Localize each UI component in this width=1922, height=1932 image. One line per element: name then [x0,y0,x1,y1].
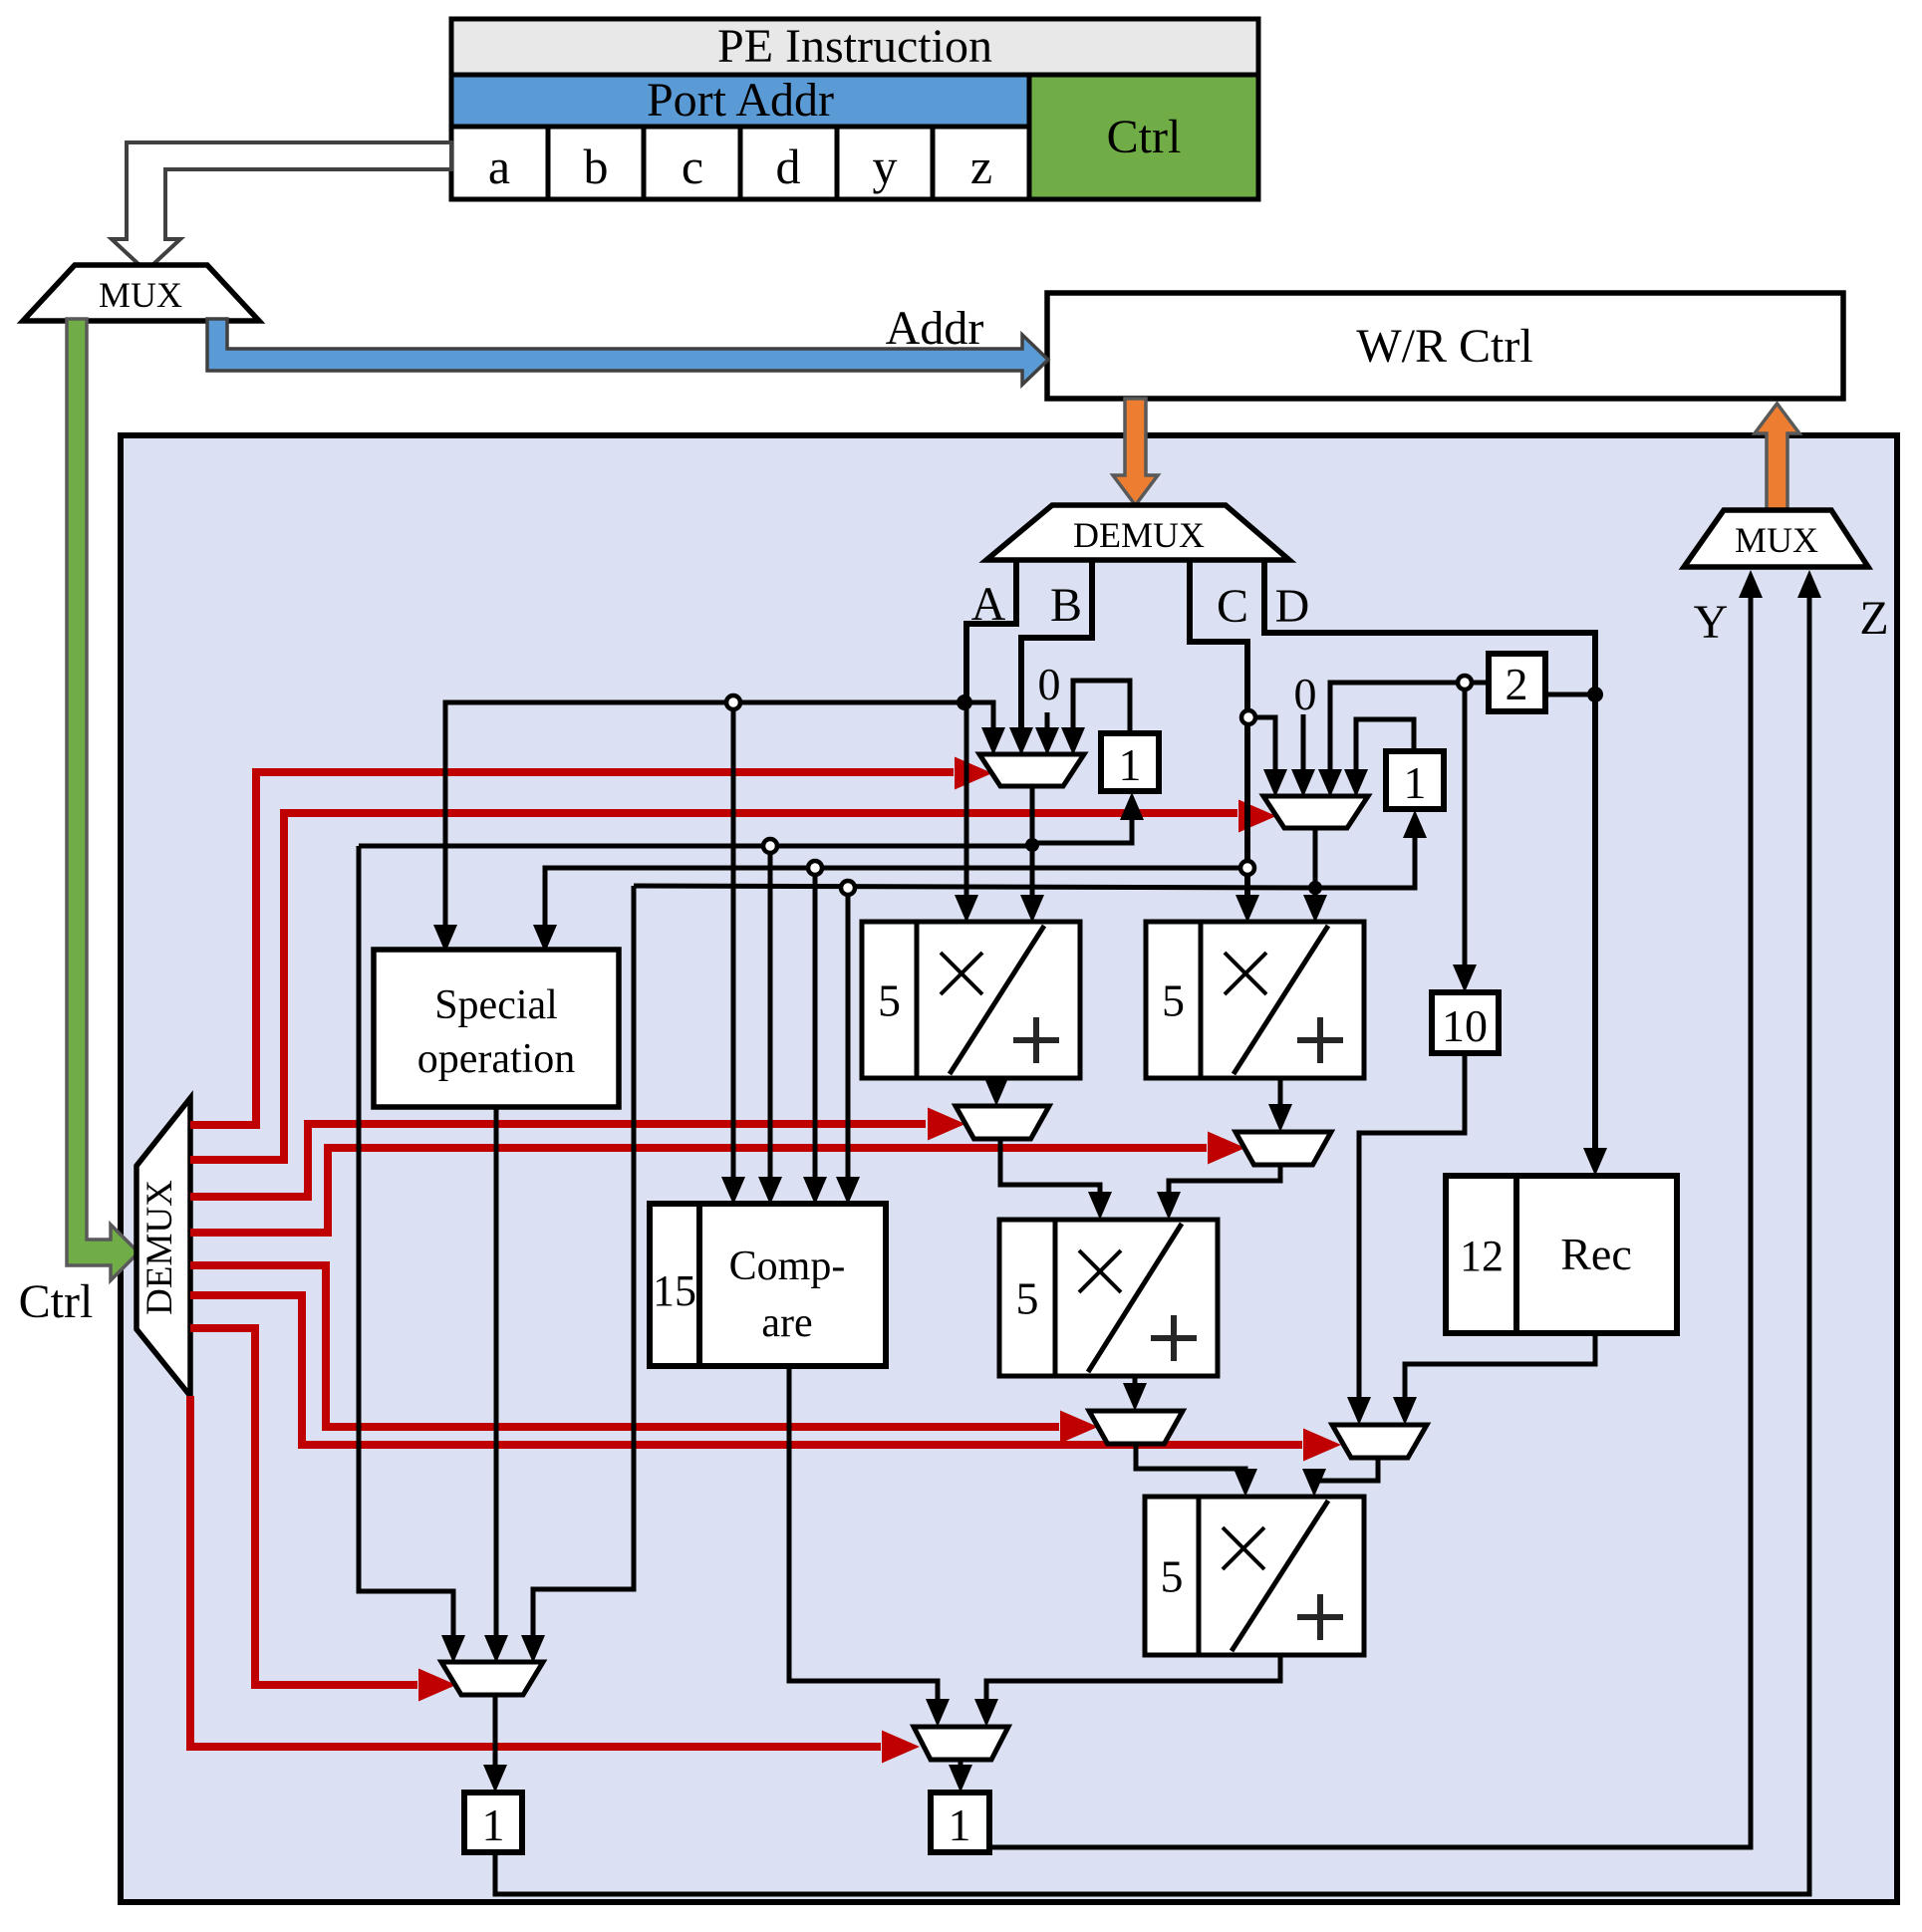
svg-text:10: 10 [1442,1000,1488,1051]
svg-text:D: D [1275,580,1310,633]
svg-text:DEMUX: DEMUX [1073,515,1205,555]
multiply symbol [1079,1250,1121,1292]
Addr bus arrow (blue) [207,319,1048,385]
red ctrl wire to mux B2 [190,1148,1207,1233]
mux A2 (operand C select) [1263,796,1368,828]
multiply symbol [1223,1527,1264,1569]
port addr cell c [644,127,740,199]
svg-text:c: c [682,138,703,194]
register 1 (mux B2 loop) [1386,751,1444,809]
svg-text:A: A [971,578,1006,631]
svg-text:Special: Special [434,982,558,1028]
svg-text:MUX: MUX [1735,520,1818,560]
junction circle [841,881,855,895]
mux C1b (mult3 result select) [1089,1411,1183,1444]
multiply symbol [1225,953,1266,994]
wire: register to Y line up to MUX [989,576,1751,1847]
mux M1 (instruction select MUX) [23,265,259,321]
wire: mux D2a output to mult4 input 2 [1314,1459,1378,1489]
svg-text:12: 12 [1460,1232,1504,1280]
mult-add unit 2 (latency 5) [1146,922,1364,1078]
shift register 10 [1432,992,1499,1053]
svg-text:are: are [761,1300,812,1346]
svg-text:1: 1 [949,1799,971,1850]
mux D2b (bottom centre) [914,1727,1008,1760]
svg-text:Addr: Addr [886,302,984,355]
mux D1b (bottom left) [441,1662,543,1695]
port addr cell a [451,127,548,199]
wire: Rec output to mux D2a input 2 [1405,1333,1595,1417]
mult-add unit 3 (latency 5) [999,1220,1218,1376]
svg-text:1: 1 [1404,757,1427,808]
svg-text:Ctrl: Ctrl [1107,111,1182,163]
port addr cell b [548,127,644,199]
Special operation block [374,950,619,1107]
wire: C branch to Special operation / Compare input 3 [545,868,1247,945]
wire: mux B1 output to mult1 and register 1 [1030,785,1035,915]
DEMUX (control fanout, left) [137,1098,190,1396]
PE datapath enclosure box [121,435,1897,1902]
svg-text:b: b [584,138,609,194]
wire: mux C2a output to mult3 input 2 [1169,1166,1280,1212]
mux B2a (mult2 result select) [1236,1132,1331,1165]
svg-text:d: d [776,138,801,194]
wire: register feedback to mux B2 input 4 [1356,719,1414,789]
add symbol [1297,1037,1343,1043]
port addr cell z [933,127,1029,199]
mux M2 (read port MUX) [1684,510,1868,567]
red ctrl wire to mux D2 [190,1396,881,1747]
add symbol [1013,1037,1059,1043]
Compare block with latency 15 [650,1204,886,1366]
svg-text:Comp-: Comp- [729,1243,846,1289]
wire: Compare output to bottom-centre mux [789,1366,938,1719]
W/R-to-DEMUX arrow (orange, down) [1113,399,1158,505]
mult-add unit 1 (latency 5) [862,922,1080,1078]
red ctrl wire to mux B1 [190,1124,926,1197]
wire: mult1 output to mux C1a [994,1078,999,1098]
junction circle [1458,676,1472,690]
svg-text:Z: Z [1859,592,1888,645]
svg-text:5: 5 [878,975,901,1026]
wire: A to mult1 [964,702,969,915]
wire: branch to Compare input 4 [846,888,851,1197]
svg-text:Port Addr: Port Addr [647,74,834,127]
svg-text:1: 1 [1119,739,1142,790]
wire: DEMUX output A [966,558,1016,702]
wire: DEMUX output B [1021,558,1092,747]
svg-text:5: 5 [1016,1273,1039,1324]
wire: mult4 output to bottom-centre mux [986,1655,1280,1719]
wire: branch to Compare input 2 [768,846,773,1197]
wire: Special operation output to bottom mux [494,1107,499,1655]
red ctrl wire to mux D1 [190,1328,417,1685]
wire: mult2 output to mux C2a [1278,1078,1283,1124]
wire: bottom-centre mux output into register 1 [959,1762,963,1785]
multiply symbol [941,953,982,994]
wire: bottom-left mux output into register 1 [493,1696,498,1785]
PE Instruction header row [451,19,1258,75]
mult-add unit 4 (latency 5) [1145,1497,1364,1655]
wire: shifter 10 output to mux D2a input 1 [1359,1053,1465,1417]
W/R Ctrl block [1047,293,1843,399]
DEMUX (write port decoder) [986,505,1289,560]
add symbol [1297,1614,1343,1620]
wire: register feedback to mux B1 input 4 [1073,681,1130,747]
wire: A distribution (Special op / Compare / mux) [445,702,993,945]
svg-text:W/R Ctrl: W/R Ctrl [1356,320,1532,373]
wire: mux C1a output to mult3 input 1 [1000,1140,1100,1212]
junction: A node [957,694,972,710]
svg-text:B: B [1050,579,1082,632]
mux B1a (mult1 result select) [956,1106,1049,1139]
port addr cell y [837,127,933,199]
wire: mux D1a output to mult4 input 1 [1136,1445,1245,1489]
svg-text:z: z [970,138,992,194]
svg-text:5: 5 [1161,1551,1184,1602]
svg-text:C: C [1217,580,1248,633]
svg-text:5: 5 [1162,975,1185,1026]
port addr cell d [740,127,837,199]
svg-text:operation: operation [417,1036,576,1082]
Ctrl field [1029,75,1258,199]
svg-text:2: 2 [1506,659,1528,709]
red ctrl wire to mux A2 [190,813,1237,1160]
register 1 (mux B1 loop) [1101,733,1159,791]
wire: DEMUX output D [1264,558,1595,1168]
svg-text:Ctrl: Ctrl [19,1275,94,1328]
wire: DEMUX output C [1190,558,1247,915]
red ctrl wire to mux A1 [190,772,954,1125]
junction: D and constant 2 [1587,687,1603,702]
svg-text:15: 15 [653,1266,696,1315]
svg-text:0: 0 [1038,659,1061,709]
junction: mux B1 output node [1025,838,1039,852]
svg-text:DEMUX: DEMUX [139,1180,180,1315]
wire: constant 2 to mux B2 input 3 and shifter 10 [1330,683,1486,789]
Port Addr field [451,75,1029,127]
wire: mux B2 output to mult2 and register 1 [1313,827,1318,915]
red ctrl wire to mux C2 [190,1295,1302,1445]
wire: mult3 output to mux D1a [1133,1376,1138,1403]
junction circle [763,839,777,853]
mux C2b (Rec/shift select) [1332,1425,1427,1458]
register 1 (bottom left) [464,1793,522,1852]
add symbol [1151,1335,1197,1341]
svg-text:Y: Y [1694,596,1729,649]
svg-text:0: 0 [1294,669,1317,719]
MUX-to-W/R arrow (orange, up) [1755,404,1799,511]
instruction-to-MUX hollow arrow wire [112,142,451,271]
svg-text:y: y [873,138,898,194]
wire: register to Z line up to MUX [495,576,1809,1894]
svg-text:MUX: MUX [99,275,182,315]
junction circle on A line [726,695,740,709]
wire: C branch to mux B2 input 1 [1247,717,1275,789]
svg-text:a: a [488,138,510,194]
junction: mux B2 output node [1308,881,1322,895]
Rec block with latency 12 [1446,1176,1677,1333]
red ctrl wire to mux C1 [190,1265,1059,1427]
wire: A branch to Compare input 1 [731,702,736,1197]
svg-text:Rec: Rec [1560,1229,1632,1279]
mux A1 (operand A select) [979,754,1084,786]
Ctrl bus arrow (green) [67,319,138,1280]
svg-text:PE Instruction: PE Instruction [717,20,992,73]
register 1 (bottom centre) [931,1793,989,1852]
svg-text:1: 1 [482,1799,505,1850]
constant box 2 [1489,654,1545,711]
junction circle [808,861,822,875]
